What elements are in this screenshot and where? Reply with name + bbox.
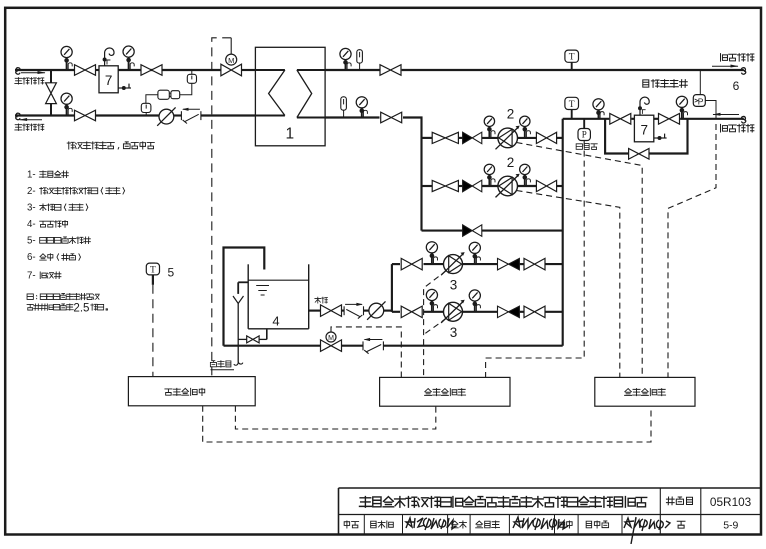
wire: make-up pump branch 1	[392, 263, 400, 265]
pressure gauge secondary supply	[340, 48, 351, 59]
svg-text:1: 1	[285, 125, 294, 142]
pressure gauge on supply before strainer	[61, 46, 72, 57]
motorized fill valve with M actuator	[321, 340, 342, 352]
check valve branch 1	[463, 132, 473, 144]
wire: heat meter signal lines	[180, 83, 192, 95]
svg-text:2: 2	[507, 107, 515, 122]
circulating pump 2 (#2, variable frequency)	[498, 176, 518, 196]
valve: supply line inlet valve	[75, 65, 96, 76]
wire: left bypass pipe	[50, 70, 52, 83]
automatic control box 自动控制箱	[128, 377, 255, 406]
thermometer secondary supply	[357, 50, 363, 63]
wire: strainer bypass pipe	[605, 119, 629, 154]
valve: strainer outlet valve	[659, 114, 680, 125]
dirt remover 7 (left strainer box)	[99, 66, 118, 93]
wire: tank overflow to funnel	[238, 281, 248, 283]
differential pressure transducer 压差传感器	[699, 70, 701, 95]
valve: branch 2 suction valve	[536, 180, 556, 191]
valve: secondary supply valve	[380, 65, 401, 76]
label: heat-net supply water 热网供水	[15, 78, 22, 84]
svg-text:7-: 7-	[27, 270, 36, 281]
thermometer secondary return	[341, 97, 347, 110]
pressure gauge branch 2 (suction)	[520, 164, 530, 174]
wire: dashed link pressure tap to middle cabinet	[486, 141, 585, 378]
pressure gauge system return (before strainer)	[593, 99, 604, 110]
wire: pump bypass branch	[422, 230, 463, 232]
pressure gauge make-up branch 1 discharge	[469, 242, 480, 253]
title block row 2 texts	[344, 521, 349, 528]
valve: make-up branch 2 outlet valve	[524, 306, 545, 318]
svg-text:2-: 2-	[27, 186, 36, 197]
valve: supply line valve after strainer	[141, 65, 162, 76]
svg-text:5-: 5-	[27, 235, 36, 246]
drain on dirt remover 7	[118, 87, 131, 89]
label: system return water 系统回水	[721, 124, 728, 132]
valve: return line valve	[75, 110, 96, 121]
wire: tank fill pipe from bottom line	[224, 248, 265, 346]
pressure gauge branch 2 (discharge)	[484, 164, 494, 174]
temperature sensor on supply (heat meter)	[191, 70, 193, 74]
label: system supply water 系统供水	[721, 54, 728, 62]
pressure gauge system return (after strainer)	[676, 96, 687, 107]
check valve on heat-net return	[180, 111, 182, 120]
circulating pump 2 (#1, variable frequency)	[498, 128, 518, 148]
wire: heat-net supply pipe (hot water in)	[16, 68, 20, 75]
pressure tap sensor P 取压点	[583, 119, 585, 129]
pressure gauge make-up branch 2 suction	[426, 289, 437, 300]
title block frame	[339, 487, 761, 489]
tank drain pipe with valve	[266, 329, 268, 340]
svg-text:6-: 6-	[27, 252, 36, 263]
valve: secondary return valve	[381, 112, 402, 123]
valve: strainer bypass valve	[629, 149, 649, 160]
pressure gauge make-up branch 2 discharge	[469, 290, 480, 301]
wire: secondary return pipe into pump discharge header	[325, 116, 379, 118]
heat calculator (flow computer) boxes	[158, 90, 169, 99]
valve: make-up branch 1 inlet valve	[401, 258, 422, 270]
signature scribble 2	[513, 517, 568, 530]
svg-text:7: 7	[640, 123, 648, 138]
valve: branch 1 discharge valve	[432, 132, 458, 143]
temperature sensor on return (heat meter)	[141, 103, 151, 112]
svg-text:T: T	[569, 100, 575, 110]
check valve branch 2	[463, 180, 473, 192]
wire: make-up branch riser	[391, 264, 393, 312]
svg-text:05R103: 05R103	[710, 495, 752, 509]
pressure gauge on supply after strainer	[123, 46, 134, 57]
wire: dashed link circulation pump 2 to right cabinet	[517, 191, 620, 378]
valve: tank drain valve	[247, 336, 259, 343]
pressure gauge branch 1 (discharge)	[484, 116, 494, 126]
wire: dashed line sensor T5 to auto control box	[152, 285, 154, 377]
wire: right pump suction header	[562, 119, 564, 346]
valve: make-up branch 2 inlet valve	[401, 306, 422, 318]
check valve on fill line	[362, 341, 364, 350]
heat exchanger 1 (plate type)	[255, 47, 325, 146]
svg-text:T: T	[150, 265, 156, 275]
floor drain symbol 接地漏	[234, 362, 243, 365]
valve: strainer inlet valve	[610, 114, 631, 125]
svg-text:4-: 4-	[27, 219, 36, 230]
valve: branch 2 discharge valve	[432, 180, 458, 191]
valve: left bypass relief valve (vertical)	[46, 83, 57, 104]
check valve on pump bypass branch	[463, 225, 473, 237]
VFD control cabinet (make-up pumps) 变频控制柜	[380, 377, 510, 406]
label: differential pressure sensor 压差传感器	[643, 80, 649, 87]
svg-text:3: 3	[450, 277, 458, 292]
dirt remover 7 (right strainer box)	[634, 115, 653, 142]
svg-text:3-: 3-	[27, 202, 36, 213]
VFD control cabinet (circulation pumps) 变频控制柜	[595, 377, 695, 406]
pressure gauge on return	[61, 93, 72, 104]
wire: dashed link auto box to right cabinet	[203, 406, 651, 442]
pressure gauge secondary return	[356, 97, 367, 108]
svg-text:6: 6	[733, 79, 740, 93]
svg-text:2: 2	[507, 155, 515, 170]
svg-text:3: 3	[450, 325, 458, 340]
wire: dashed link circulation pump 1 to right cabinet	[517, 143, 643, 378]
wire: supply pipe right of heat exchanger to system supply	[325, 69, 379, 71]
check valve on make-up suction	[343, 306, 345, 315]
flow arrow system supply	[712, 65, 738, 67]
wire: dashed link DP sensor to right cabinet	[668, 124, 716, 377]
temperature sensor on system supply	[571, 62, 573, 70]
svg-text:4: 4	[272, 314, 279, 329]
wire: make-up suction pipe from tank	[309, 310, 321, 312]
title text	[360, 497, 372, 508]
temperature sensor on system return	[571, 110, 573, 119]
label: heat-net return water 热网回水	[15, 124, 22, 130]
label: make-up water 补水	[315, 297, 321, 303]
vent hook on dirt remover 7	[105, 48, 114, 66]
wire: circulation pump branch 1	[422, 137, 433, 139]
svg-text:7: 7	[105, 73, 113, 88]
outdoor temperature compensator sensor T5	[146, 263, 159, 275]
softened water tank 4	[247, 264, 249, 329]
signature scribble 3	[624, 517, 670, 544]
svg-text:1-: 1-	[27, 169, 36, 180]
flow arrow system return	[713, 114, 739, 116]
wire: pressurize/fill bottom pipe	[224, 345, 321, 347]
svg-text:5: 5	[167, 266, 174, 280]
label: primary heat metering 一级热网热量，流量计量	[67, 142, 74, 149]
svg-text:M: M	[328, 335, 334, 342]
wire: heat-net return pipe	[16, 113, 20, 120]
valve: branch 1 suction valve	[536, 132, 556, 143]
label: to floor drain 接地漏	[210, 361, 216, 367]
wire: make-up pump branch 2	[392, 311, 400, 313]
pressure gauge branch 1 (suction)	[520, 116, 530, 126]
flow arrow heat-net supply	[21, 72, 45, 74]
flow meter on heat-net return	[159, 109, 174, 124]
wire: control line from motorized valve to auto control box	[230, 38, 232, 54]
drain on right dirt remover	[654, 137, 667, 139]
flow arrow heat-net return	[20, 119, 42, 121]
make-up pump 3 (#1, variable frequency)	[444, 255, 463, 274]
valve: tank outlet valve	[321, 305, 342, 317]
wire: dashed link fill valve M to middle cabinet	[331, 327, 401, 378]
vent hook on right dirt remover	[640, 97, 649, 115]
svg-text:M: M	[228, 56, 234, 65]
overflow funnel	[233, 296, 244, 304]
check valve make-up branch 2	[498, 306, 509, 318]
svg-text:T: T	[569, 53, 575, 63]
wire: dashed link auto box to middle cabinet	[235, 406, 435, 429]
motorized control valve on supply (electric)	[221, 64, 242, 76]
pressure gauge make-up branch 1 suction	[426, 242, 437, 253]
signature scribble 1	[406, 518, 456, 530]
water level mark in tank	[256, 285, 269, 287]
atlas number label 图集号	[666, 497, 674, 505]
make-up pump 3 (#2, variable frequency)	[444, 302, 463, 321]
wire: dashed link make-up pumps to middle cabinet	[424, 271, 447, 378]
svg-text:P: P	[698, 96, 704, 106]
wire: circulation pump branch 2	[422, 185, 433, 187]
check valve make-up branch 1	[498, 258, 509, 270]
wire: system return pipe	[563, 118, 610, 120]
svg-text:5-9: 5-9	[723, 520, 738, 532]
flow meter on make-up suction	[369, 303, 384, 318]
svg-text:P: P	[582, 130, 587, 140]
svg-text:2.5: 2.5	[73, 301, 89, 314]
valve: make-up branch 1 outlet valve	[524, 258, 545, 270]
